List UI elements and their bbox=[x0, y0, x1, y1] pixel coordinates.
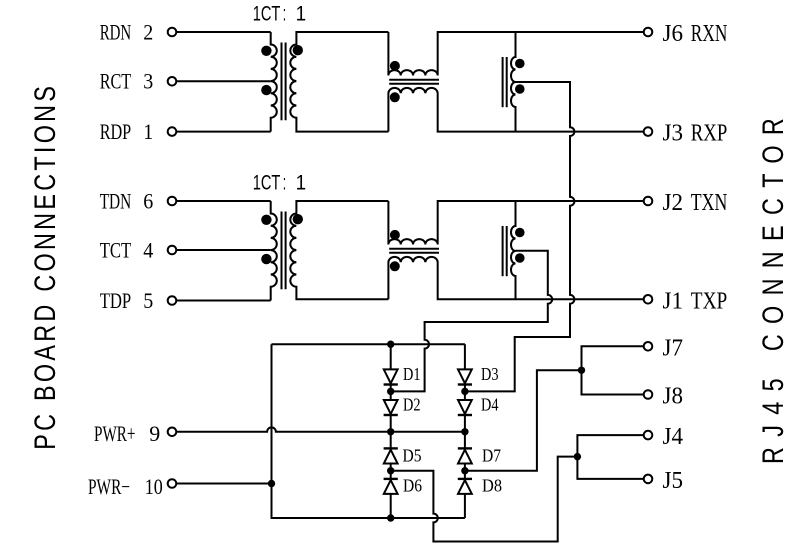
svg-text:PC BOARD CONNECTIONS: PC BOARD CONNECTIONS bbox=[28, 83, 61, 450]
svg-text:J6: J6 bbox=[663, 21, 684, 47]
svg-text:RXN: RXN bbox=[691, 21, 728, 47]
svg-text:RJ45 CONNECTOR: RJ45 CONNECTOR bbox=[756, 108, 789, 464]
svg-text:PWR+: PWR+ bbox=[94, 421, 136, 446]
svg-text:D7: D7 bbox=[482, 445, 501, 465]
svg-text:J2: J2 bbox=[663, 190, 684, 216]
svg-text:RXP: RXP bbox=[691, 121, 728, 147]
svg-text:D2: D2 bbox=[403, 395, 421, 415]
svg-text:J5: J5 bbox=[663, 468, 684, 494]
svg-text:PWR−: PWR− bbox=[88, 474, 130, 499]
svg-text:9: 9 bbox=[149, 421, 160, 446]
svg-text:TXN: TXN bbox=[691, 190, 728, 216]
svg-text:J7: J7 bbox=[663, 335, 684, 361]
svg-text:1CT: 1CT bbox=[253, 171, 281, 195]
svg-text:D4: D4 bbox=[481, 395, 499, 415]
svg-text:5: 5 bbox=[143, 288, 153, 313]
svg-text::: : bbox=[283, 171, 286, 195]
svg-text:1: 1 bbox=[296, 2, 307, 26]
svg-text:J3: J3 bbox=[663, 121, 684, 147]
svg-text:D3: D3 bbox=[481, 364, 499, 384]
svg-text:RCT: RCT bbox=[100, 69, 132, 94]
svg-text:D5: D5 bbox=[403, 445, 422, 465]
svg-text:10: 10 bbox=[145, 474, 163, 499]
svg-text:1: 1 bbox=[143, 119, 153, 144]
svg-text:3: 3 bbox=[143, 69, 153, 94]
svg-text:1: 1 bbox=[296, 171, 307, 195]
svg-text:D6: D6 bbox=[403, 476, 422, 496]
svg-text:TDP: TDP bbox=[100, 288, 132, 313]
svg-text:RDP: RDP bbox=[100, 119, 132, 144]
svg-text:D1: D1 bbox=[403, 364, 421, 384]
svg-text::: : bbox=[283, 2, 286, 26]
svg-text:D8: D8 bbox=[482, 476, 502, 496]
svg-text:1CT: 1CT bbox=[253, 2, 281, 26]
svg-text:TDN: TDN bbox=[100, 188, 132, 213]
svg-text:J1: J1 bbox=[663, 288, 684, 314]
svg-text:6: 6 bbox=[143, 188, 153, 213]
svg-text:4: 4 bbox=[143, 237, 153, 262]
svg-text:TXP: TXP bbox=[691, 288, 728, 314]
svg-text:J4: J4 bbox=[663, 424, 684, 450]
svg-text:TCT: TCT bbox=[100, 237, 132, 262]
svg-text:RDN: RDN bbox=[100, 19, 132, 44]
svg-text:2: 2 bbox=[143, 19, 153, 44]
svg-text:J8: J8 bbox=[663, 384, 684, 410]
